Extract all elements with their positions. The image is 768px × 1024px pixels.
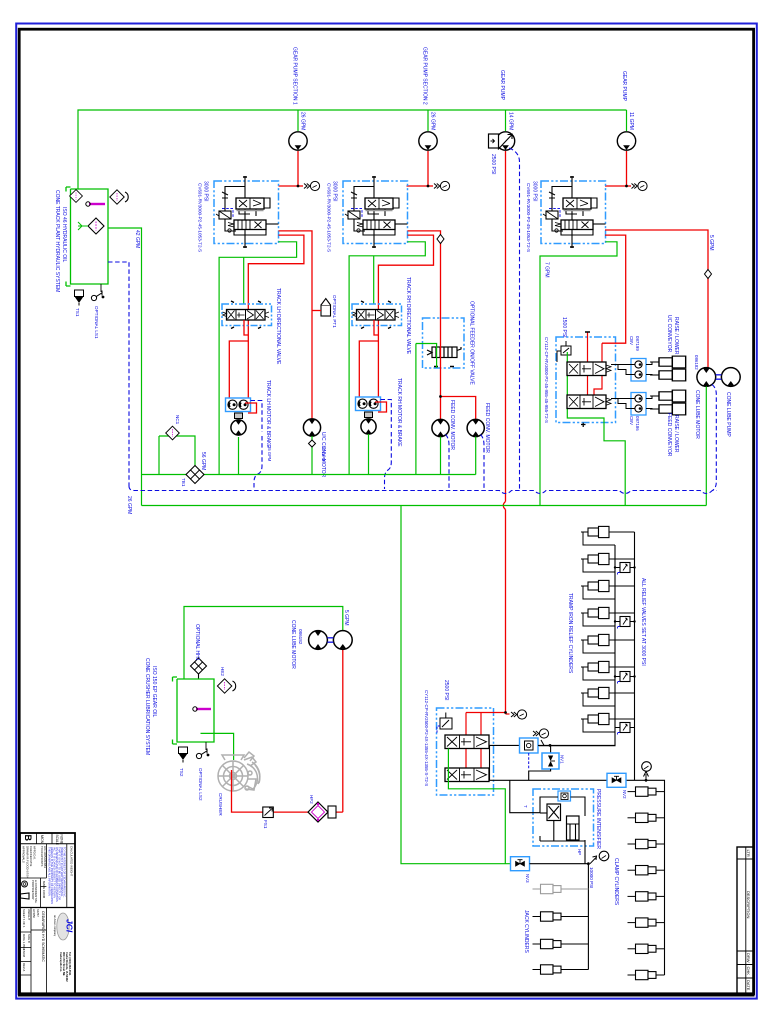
svg-text:HP: HP [577,849,582,855]
wire V3 green return 7GPM [540,242,617,506]
HP arrow [590,856,597,864]
pressure switch PS1 [520,738,539,753]
clamp cylinder CC1 [628,787,657,796]
wire pump4 drop [626,110,628,131]
jack cylinder JC1 (optional gray) [533,884,562,893]
needle valve NV2 [607,773,626,787]
svg-text:5 GPM: 5 GPM [708,235,714,251]
svg-text:GEAR PUMP: GEAR PUMP [621,71,627,102]
svg-text:OPTIONAL LS1: OPTIONAL LS1 [94,306,99,339]
wire clamp red top [466,713,506,769]
svg-text:B: B [23,835,33,842]
svg-text:ALL RELIEF VALVES SET AT 3000: ALL RELIEF VALVES SET AT 3000 PSI [640,578,646,666]
svg-text:RAISE / LOWER: RAISE / LOWER [673,415,679,453]
wire pump1 drop [297,110,299,131]
svg-text:CBV: CBV [629,336,634,345]
svg-text:CV691-RV3000-P2-45-1053-T2-S: CV691-RV3000-P2-45-1053-T2-S [327,183,332,252]
svg-text:HYD50: HYD50 [32,909,36,918]
heat exchanger HE1 [110,190,124,204]
svg-text:CLAMP CYLINDERS: CLAMP CYLINDERS [613,858,619,906]
pump P3 [496,132,514,150]
wire RL1 red internals [588,332,603,395]
cylinder TC1 [581,526,609,537]
motor M5 feed conveyor [467,419,484,436]
svg-text:14 GPM: 14 GPM [508,112,514,130]
clamp cylinder CC4 [628,866,657,875]
svg-text:DESCRIPTION: DESCRIPTION [746,891,751,918]
gauge G4 [632,181,648,190]
svg-text:64257: 64257 [36,909,40,917]
svg-text:CALCULATED WEIGHT: CALCULATED WEIGHT [70,846,74,877]
relief valve RVA [618,563,631,576]
cylinder UC raise B [650,369,686,381]
svg-text:TRACK LH MOTOR & BRAKE: TRACK LH MOTOR & BRAKE [265,380,271,448]
intensifier box [533,789,594,846]
svg-text:42 GPM: 42 GPM [134,230,140,248]
pump P2 [419,132,437,150]
svg-text:JACK CYLINDERS: JACK CYLINDERS [523,910,529,953]
clamp cylinder CC3 [628,839,657,848]
wire M5 return [475,437,477,475]
drain TS2 [179,747,188,763]
svg-text:TRACK RH MOTOR & BRAKE: TRACK RH MOTOR & BRAKE [396,378,402,447]
svg-text:DATE: DATE [746,980,751,991]
wire V1 green to dir valve [243,257,245,304]
wire tramp cap bus [627,532,635,780]
heat exchanger HE1b [217,679,231,693]
svg-text:OPTIONAL PT1: OPTIONAL PT1 [332,295,337,328]
svg-text:GEAR PUMP: GEAR PUMP [499,70,505,101]
wire CBV2 to cylinders [646,396,659,409]
lube pump LP2 [333,631,352,650]
svg-text:CRUSHER: CRUSHER [218,793,223,816]
svg-text:RAISE / LOWER: RAISE / LOWER [673,317,679,355]
clamp cylinder CC5 [628,892,657,901]
trapezoid logo [21,893,30,899]
wire green supply header [78,110,627,189]
title blue paragraph [48,847,67,904]
cylinder feed raise A [650,390,686,402]
clamp cylinder CC6 [628,918,657,927]
svg-text:35 GPM: 35 GPM [267,446,272,462]
level switch LS2 [196,749,209,759]
svg-text:3000 PSI: 3000 PSI [532,181,538,202]
wire tramp rod bus [538,545,615,746]
gauge G7 [642,762,652,772]
track motor M2 [356,397,381,434]
cylinder TC7 [581,687,609,698]
svg-text:UC CONVEYOR: UC CONVEYOR [666,315,672,353]
lube pump LP1 [721,368,740,387]
svg-text:OPTIONAL FEEDER ON/OFF VALVE: OPTIONAL FEEDER ON/OFF VALVE [469,301,475,385]
gauge G2 [434,181,450,190]
wire pump1 pressure [279,151,299,186]
filter NC1 [159,436,195,466]
intensifier pilot box [558,791,571,801]
wire V3 red B to lube motor [605,230,708,368]
wire intensifier inlet [510,780,540,812]
svg-text:26 GPM: 26 GPM [430,112,436,130]
wire LM1 return green [705,386,707,505]
heat exchanger HF2 [308,802,328,822]
svg-text:PRESSURE INTENSIFIER: PRESSURE INTENSIFIER [595,789,601,849]
svg-text:MCN: MCN [40,835,44,844]
directional valve DV1 [222,301,272,329]
svg-text:TB1: TB1 [181,478,186,487]
svg-text:CY112-CP-RV2500-P2-4X-1355-4X-: CY112-CP-RV2500-P2-4X-1355-4X-1355-S-T2-… [424,690,429,786]
jack cylinder JC2 [533,912,562,921]
svg-text:HE2: HE2 [220,667,225,676]
title tiny texts [22,846,74,899]
svg-text:LIN-1065-MCN53: LIN-1065-MCN53 [43,846,47,868]
JCI logo [57,913,69,940]
svg-text:FEED CONV. MOTOR: FEED CONV. MOTOR [449,400,455,450]
svg-text:WEIGHT: WEIGHT [27,909,31,920]
flow switch FS1 [263,807,274,818]
wire return bus green lower [142,505,707,507]
wire M4 drain [446,435,450,490]
suction strainer F1 [88,218,104,234]
transducer PT1 [312,299,331,317]
svg-text:SIZE B: SIZE B [27,934,31,943]
shaft LM2-LP2 [327,638,333,642]
clamp cylinder CC2 [628,813,657,822]
svg-text:NC1: NC1 [175,415,180,425]
directional valve DV2 [352,301,402,329]
relief CLVR [437,713,452,735]
svg-text:MADE FROM: MADE FROM [42,881,46,899]
gauge G8 [599,851,609,861]
svg-text:FEED CONVEYOR: FEED CONVEYOR [666,413,672,457]
svg-text:CHECKED M.W.: CHECKED M.W. [29,846,33,867]
gauge G1 [304,181,320,190]
breather B1 [70,190,83,203]
svg-text:DRW: DRW [746,953,751,963]
svg-text:FS1: FS1 [263,820,268,829]
wire clamp work B [489,779,606,781]
svg-text:OPTIONAL HH1: OPTIONAL HH1 [194,624,200,661]
wire return bus green upper [142,474,476,476]
svg-text:CEDARAPIDS HYD SCHEMATIC: CEDARAPIDS HYD SCHEMATIC [41,911,45,962]
valve assembly V3 conveyors [541,176,606,248]
gauge G6 [533,729,549,738]
svg-text:CBV: CBV [629,416,634,425]
svg-text:TRACK LH DIRECTIONAL VALVE: TRACK LH DIRECTIONAL VALVE [275,288,281,365]
wire M1 case drain [251,401,263,490]
copyright mark [22,881,28,887]
wire 42 GPM suction [108,228,142,506]
wire feeder green inlet [416,344,437,475]
relief valve RVB [618,617,631,630]
wire pump3 drop [505,110,507,131]
wire main downfeed green [401,506,510,864]
wire RL1 green internals [567,352,625,506]
clamp spool upper [445,735,489,749]
svg-text:SCALE: SCALE [55,835,59,845]
svg-text:CONE LUBE PUMP: CONE LUBE PUMP [725,392,731,437]
svg-text:Tel: (319) 363-3511: Tel: (319) 363-3511 [68,952,72,976]
svg-text:DRAWN R.FLOOD 6/7/04: DRAWN R.FLOOD 6/7/04 [26,846,30,879]
wire drain bus dashed [129,486,716,494]
cylinder UC raise A [650,356,686,368]
wire CBV1 to cylinders [646,362,659,375]
cylinder TC3 [581,580,609,591]
svg-text:TS2: TS2 [179,768,184,777]
pump P4 [617,132,635,150]
svg-text:TRAMP IRON RELIEF CYLINDERS: TRAMP IRON RELIEF CYLINDERS [567,593,573,674]
lube motor LM2 [309,631,328,650]
wire V2 red B to feeder valve [408,231,441,318]
wire tank2 suction [201,733,234,760]
wire LP1 drain dashed [712,385,716,491]
svg-text:HF2: HF2 [309,795,314,804]
svg-text:3000 PSI: 3000 PSI [203,181,209,202]
level gauge LG2 [196,708,211,710]
spool RL upper [567,362,611,376]
wire V1 red A [248,235,304,398]
valve assembly V2 track RH [343,176,408,248]
svg-text:ISO 46 HYDRAULIC OIL: ISO 46 HYDRAULIC OIL [61,207,67,263]
wire PS1 pilot dashed [528,753,530,769]
filter TB1 [186,466,204,484]
svg-text:3000 PSI: 3000 PSI [332,181,338,202]
feeder on/off valve FV1 [423,318,465,368]
svg-text:CV691-RV3000-P2-45-1053-T2-S: CV691-RV3000-P2-45-1053-T2-S [526,183,531,252]
jack cylinder JC4 [533,965,562,974]
wire tramp rod lines [583,532,635,732]
svg-text:087199: 087199 [635,336,640,351]
wire M5 drain [481,435,485,490]
svg-text:10000 PSI: 10000 PSI [589,867,594,888]
wire pump3 long pressure line to clamp valve [505,151,507,713]
svg-text:JCI: JCI [65,919,75,933]
wire clamp bus [606,780,665,975]
clamp cylinder CC7 [628,944,657,953]
wire pump3 LS drain [509,148,520,489]
wire V2 green work [349,242,425,475]
wire pump4 pressure [605,151,627,186]
wire M1 return [238,437,240,475]
wire tank return dashed [108,262,129,486]
needle valve NV1 [550,745,552,753]
svg-text:ISO 150 EP GEAR OIL: ISO 150 EP GEAR OIL [151,666,157,718]
lube motor LM1 [697,368,716,387]
wire pump2 pressure [407,151,429,186]
filter HH1 [191,658,207,674]
svg-text:CHK: CHK [746,967,751,976]
svg-text:TO THE INTEREST OF CEDARAPIDS: TO THE INTEREST OF CEDARAPIDS INC. [63,847,67,898]
motor M4 feed conveyor [432,419,449,436]
wire V2 green to dir valve [373,256,375,304]
svg-text:CONE LUBE MOTOR: CONE LUBE MOTOR [694,390,700,439]
wire clamp green internal [448,749,505,864]
svg-text:NONE: NONE [60,835,64,844]
wire feeder red through [441,318,476,419]
wire DV1 to motor red [229,341,248,398]
valve assembly V1 track LH [214,176,279,248]
svg-text:GEAR PUMP SECTION 1: GEAR PUMP SECTION 1 [292,47,298,105]
crusher art [218,752,260,791]
svg-text:SHEET 1 OF 1: SHEET 1 OF 1 [22,909,26,928]
cylinder TC4 [581,607,609,618]
svg-text:APPROVALS: APPROVALS [22,846,26,863]
wire clamp work A [489,744,520,746]
svg-text:NV1: NV1 [560,755,565,764]
svg-text:7 GPM: 7 GPM [544,262,550,278]
svg-text:086182: 086182 [694,355,699,370]
svg-text:CONE CRUSHER LUBRICATION SYSTE: CONE CRUSHER LUBRICATION SYSTEM [144,658,150,755]
svg-text:TS1: TS1 [75,308,80,317]
clamp cylinder CC8 [628,970,657,979]
svg-text:OPTIONAL LS2: OPTIONAL LS2 [198,768,203,801]
svg-text:TRACK RH DIRECTIONAL VALVE: TRACK RH DIRECTIONAL VALVE [405,277,411,355]
svg-text:& CONFIDENTIAL: & CONFIDENTIAL [34,880,38,904]
tank T1 [66,187,108,286]
svg-text:FEED CONV. MOTOR: FEED CONV. MOTOR [484,403,490,453]
svg-text:2500 PSI: 2500 PSI [490,154,496,175]
relief RL1a [557,341,571,362]
svg-text:2500 PSI: 2500 PSI [443,680,449,701]
wire jack feed [530,864,589,970]
wire crusher return red [232,650,343,813]
svg-text:GEAR PUMP SECTION 2: GEAR PUMP SECTION 2 [422,47,428,105]
cylinder TC6 [581,661,609,672]
svg-text:an Astec company: an Astec company [53,915,57,937]
svg-text:REV A: REV A [22,963,26,971]
needle valve NV3 [511,857,530,871]
svg-text:CONE TRACK PLANT HYDRAULIC SYS: CONE TRACK PLANT HYDRAULIC SYSTEM [54,190,60,292]
track motor M1 [226,398,251,435]
svg-text:086182: 086182 [298,629,303,645]
wire DV2 to motor red [359,341,378,397]
title field texts [22,909,40,971]
svg-text:FSCM: FSCM [22,949,26,958]
orifice on lube motor line [705,270,712,279]
svg-text:CV691-RV3000-P2-45-1053-T2-S: CV691-RV3000-P2-45-1053-T2-S [198,183,203,252]
orifice on feeder line [437,235,444,244]
wire V1 green work [219,242,297,475]
counterbalance CBV1 [611,359,646,382]
cylinder TC5 [581,634,609,645]
intensifier circuit [540,797,585,864]
svg-text:CONE LUBE MOTOR: CONE LUBE MOTOR [290,620,296,669]
relief valve RVC [618,672,631,685]
cylinder feed raise B [650,403,686,415]
title block frame [20,833,75,994]
svg-text:1500 PSI: 1500 PSI [561,317,567,338]
counterbalance CBV2 [611,393,646,416]
svg-text:56 GPM: 56 GPM [200,452,206,470]
svg-text:NV3: NV3 [525,874,530,883]
svg-text:LTR: LTR [746,850,751,857]
spool RL lower [567,395,611,409]
wire V3 red A to raise valve [602,235,626,343]
pump P1 [289,132,307,150]
clamp valve CLV1 box [437,708,494,795]
svg-text:CY112-CP-RV3000-P2-45-955-45-9: CY112-CP-RV3000-P2-45-955-45-955-T2-S [544,337,549,423]
raise/lower valve RL1 [556,337,616,423]
svg-text:11 GPM: 11 GPM [628,112,634,130]
svg-text:26 GPM: 26 GPM [126,496,132,514]
cylinder TC2 [581,553,609,564]
svg-text:10 GPM: 10 GPM [321,446,326,462]
motor M3 U/C conveyor [303,419,320,436]
jack cylinder JC3 [533,939,562,948]
shaft LM1-LP1 [716,375,722,379]
level gauge LG1 [89,203,105,205]
wire V1 red B to UC motor [279,231,313,419]
svg-text:APPD D.K.: APPD D.K. [33,846,37,860]
wire M2 case drain [381,400,392,490]
svg-text:NV2: NV2 [622,790,627,799]
svg-text:26 GPM: 26 GPM [300,112,306,130]
drain TS1 [75,290,84,306]
svg-text:087186: 087186 [635,416,640,431]
wire M2 return [368,434,370,475]
svg-text:T: T [523,805,528,808]
wire lube supply green [184,607,343,680]
check CV1 [311,436,313,475]
level switch LS1 [91,291,104,301]
clamp spool lower [445,768,489,782]
gauge G5 [511,710,527,719]
relief valve RVD [618,723,631,736]
wire V2 red A [378,235,433,397]
address block [59,952,72,982]
wire pump2 drop [427,110,429,131]
svg-text:5 GPM: 5 GPM [343,610,349,626]
revision strip frame [737,847,754,994]
cylinder TC8 [581,713,609,724]
tank T2 [173,677,215,744]
wire M4 return [440,437,442,475]
